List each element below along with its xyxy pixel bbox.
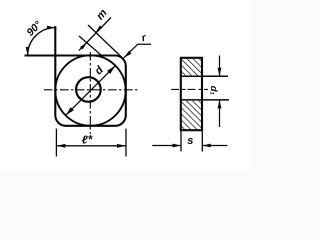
svg-text:d₁: d₁ — [208, 86, 219, 95]
svg-text:ℓ*: ℓ* — [82, 135, 93, 147]
svg-text:s: s — [187, 135, 193, 147]
